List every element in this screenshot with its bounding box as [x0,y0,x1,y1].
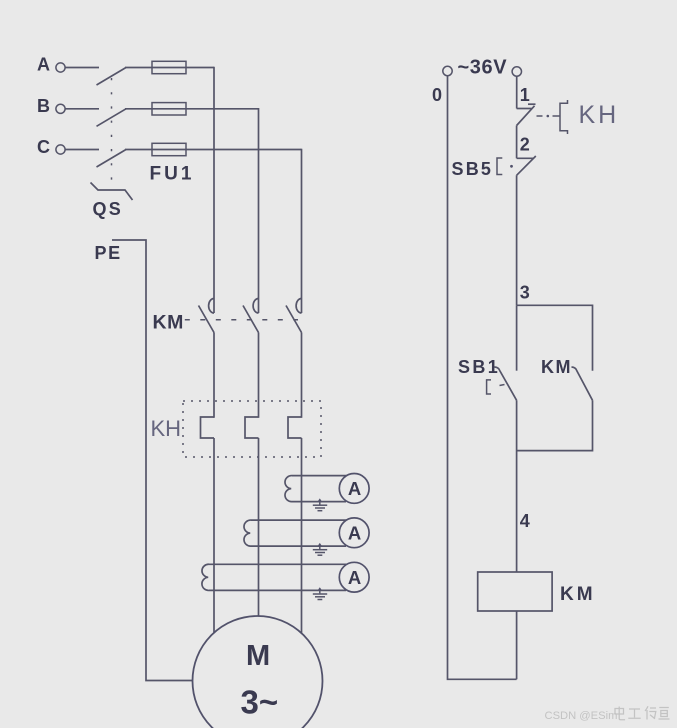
svg-text:0: 0 [432,85,442,105]
terminal A [56,63,65,72]
svg-text:A: A [348,567,361,588]
wire A to fuse and right [125,67,214,69]
wire 1-2 [516,126,518,159]
current transformer CT3 loop [209,563,347,565]
svg-text:A: A [348,522,361,543]
wire C vertical drop [301,149,303,313]
wire C to fuse and right [125,149,302,151]
wire C input [65,149,99,151]
svg-text:KH: KH [151,416,182,441]
thermal relay KH heater pole B [245,417,259,438]
ground for CT2 [318,543,322,546]
svg-text:4: 4 [520,511,530,531]
terminal C [56,145,65,154]
ammeter A3 [339,562,369,592]
wire left rail 0 [448,76,517,680]
wire KM aux bottom [517,400,593,450]
wire main rail top [516,76,518,108]
svg-text:KM: KM [541,357,572,377]
current transformer CT1 loop [292,475,347,477]
contactor KM main contact pole A [209,299,214,314]
svg-text:CSDN @ESim: CSDN @ESim [545,710,618,722]
wire 2-3 [516,175,518,305]
thermal relay KH heater pole A [201,417,215,438]
svg-text:~36V: ~36V [458,57,508,79]
pushbutton SB5 NC contact [517,157,534,159]
svg-text:FU1: FU1 [150,164,195,185]
fuse FU1 pole B [152,103,186,115]
pushbutton SB5 actuator [497,158,502,175]
control: terminal 0 circle [443,66,452,75]
svg-text:SB5: SB5 [452,159,494,179]
svg-text:KM: KM [153,311,184,333]
contactor KM main contact pole C [296,299,301,314]
fuse FU1 pole C [152,143,186,155]
switch QS pole B blade [97,109,127,127]
wire SB1 bottom [516,400,518,572]
wire B vertical drop [258,108,260,313]
fuse FU1 pole A [152,61,186,73]
KH trip actuator symbol [560,100,568,134]
wire branch to KM aux [517,305,593,370]
ammeter A1 [339,474,369,504]
KH trip linkage dash-dot [537,115,543,117]
svg-text:2: 2 [520,135,530,155]
ground for CT3 [318,587,322,590]
svg-text:C: C [37,137,50,157]
wire coil to bottom [516,611,518,679]
pushbutton SB1 actuator [487,380,491,394]
control: terminal 1 circle [512,67,521,76]
svg-text:M: M [246,640,270,672]
switch QS linkage dotted [111,78,113,184]
svg-text:B: B [37,96,50,116]
svg-text:3~: 3~ [241,683,279,720]
wire B to fuse and right [125,108,259,110]
wire 3 to SB1 [516,305,518,370]
coil KM rectangle [478,572,552,611]
svg-text:A: A [37,55,50,75]
motor M circle [193,616,323,728]
svg-text:A: A [348,478,361,499]
wire PE [112,240,193,681]
svg-text:QS: QS [93,199,123,219]
ammeter A2 [339,518,369,548]
contactor KM linkage dashed [185,319,298,321]
wire A vertical drop [213,67,215,313]
svg-text:KM: KM [560,584,596,605]
svg-text:SB1: SB1 [458,357,500,377]
terminal B [56,104,65,113]
current transformer CT2 loop [251,519,347,521]
thermal relay KH dotted box [183,401,321,457]
switch QS pole A blade [97,68,127,86]
svg-text:KH: KH [579,101,620,129]
ground for CT1 [318,498,322,501]
switch QS handle [91,183,133,201]
contactor KM aux NO contact [572,367,593,400]
wire B input [65,108,99,110]
thermal relay KH NC contact [517,108,532,110]
thermal relay KH heater pole C [288,417,302,438]
contactor KM main contact pole B [253,299,258,314]
svg-text:1: 1 [520,85,530,105]
svg-text:PE: PE [95,243,122,263]
pushbutton SB1 NO contact [495,367,517,400]
switch QS pole C blade [97,150,127,168]
svg-text:3: 3 [520,283,530,303]
wire A input [65,67,99,69]
